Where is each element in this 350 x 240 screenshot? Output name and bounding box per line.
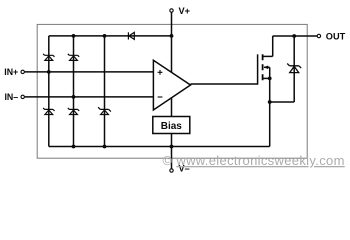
terminal V+: [170, 6, 190, 16]
svg-text:IN–: IN–: [4, 92, 18, 102]
zener Z2 output clamp: [270, 36, 301, 102]
node IN- / C2: [72, 95, 76, 99]
Bias block: [153, 117, 190, 134]
diode D6 series blocking diode: [128, 32, 134, 39]
wire IN+ line: [25, 71, 154, 73]
node source / zener return: [268, 100, 272, 104]
node bottom bus / C3: [103, 145, 107, 149]
svg-text:IN+: IN+: [4, 67, 18, 77]
wire gate lead: [191, 54, 258, 84]
transistor Q1 output MOSFET: [263, 54, 273, 146]
diode D2 IN- to V+ clamp: [68, 54, 79, 61]
node IN+ / C1: [47, 70, 51, 74]
diode D4 V- to IN- clamp: [68, 108, 79, 115]
wire top clamp bus: [49, 35, 172, 37]
op-amp U1: [153, 60, 190, 110]
wire V+ lead: [171, 13, 173, 73]
terminal IN-: [4, 92, 24, 102]
node top bus / C3: [103, 34, 107, 38]
wire column C1: [48, 36, 50, 147]
terminal OUT: [317, 31, 345, 41]
diode D3 V- to IN+ clamp: [43, 108, 54, 115]
wire V- lead: [171, 147, 173, 169]
svg-text:OUT: OUT: [326, 31, 346, 41]
wire OUT line: [273, 35, 317, 37]
wire column C3: [104, 36, 106, 147]
wire bottom V- bus: [49, 146, 270, 148]
wire column C2: [73, 36, 75, 147]
svg-text:V+: V+: [179, 6, 191, 16]
svg-text:Bias: Bias: [161, 121, 183, 132]
svg-text:© www.electronicsweekly.com: © www.electronicsweekly.com: [163, 153, 345, 168]
node bottom bus / C2: [72, 145, 76, 149]
zener Z1 supply clamp: [98, 107, 111, 114]
node OUT / zener: [292, 34, 296, 38]
wire IN- line: [25, 96, 154, 98]
node source / body: [268, 77, 272, 81]
node top bus / C2: [72, 34, 76, 38]
wire bias to V- bus: [171, 134, 173, 147]
wire drain to OUT: [272, 36, 274, 56]
wire op-amp to bias: [171, 98, 173, 117]
terminal IN+: [4, 67, 24, 77]
node bottom bus / V-: [170, 145, 174, 149]
node top bus / V+: [170, 34, 174, 38]
diode D1 IN+ to V+ clamp: [43, 54, 54, 61]
terminal V-: [170, 163, 190, 173]
IC boundary box: [37, 24, 307, 158]
